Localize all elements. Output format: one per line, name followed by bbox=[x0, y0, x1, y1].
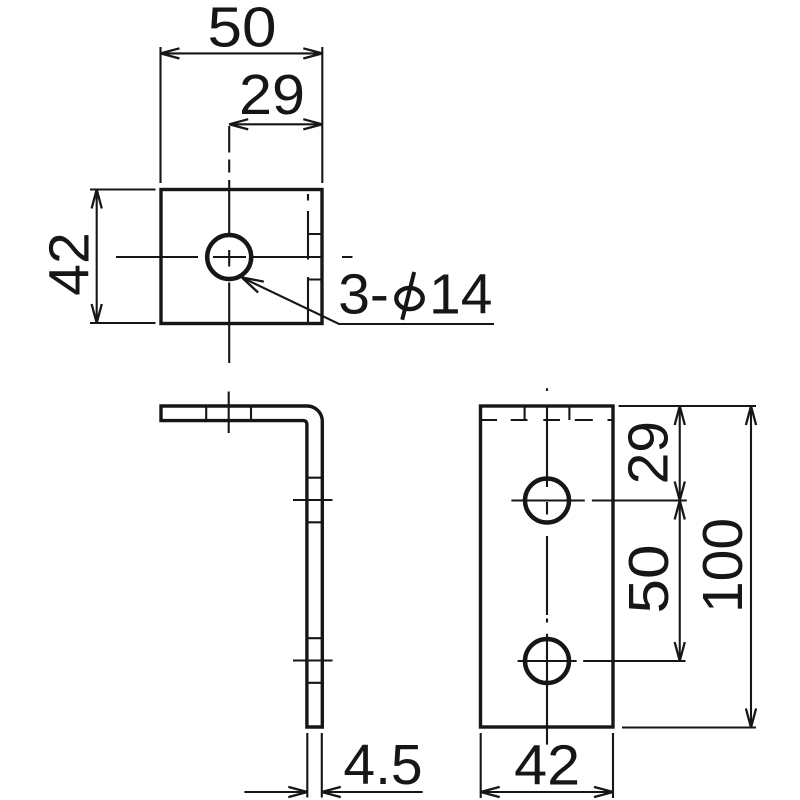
svg-text:50: 50 bbox=[617, 545, 681, 614]
svg-text:50: 50 bbox=[208, 0, 277, 59]
svg-text:100: 100 bbox=[691, 518, 755, 613]
svg-text:29: 29 bbox=[617, 421, 681, 484]
svg-text:29: 29 bbox=[239, 63, 305, 127]
svg-text:42: 42 bbox=[38, 232, 102, 295]
svg-text:42: 42 bbox=[514, 734, 580, 798]
svg-text:3-: 3- bbox=[338, 263, 389, 327]
svg-text:14: 14 bbox=[429, 263, 492, 327]
svg-text:4.5: 4.5 bbox=[343, 733, 422, 797]
